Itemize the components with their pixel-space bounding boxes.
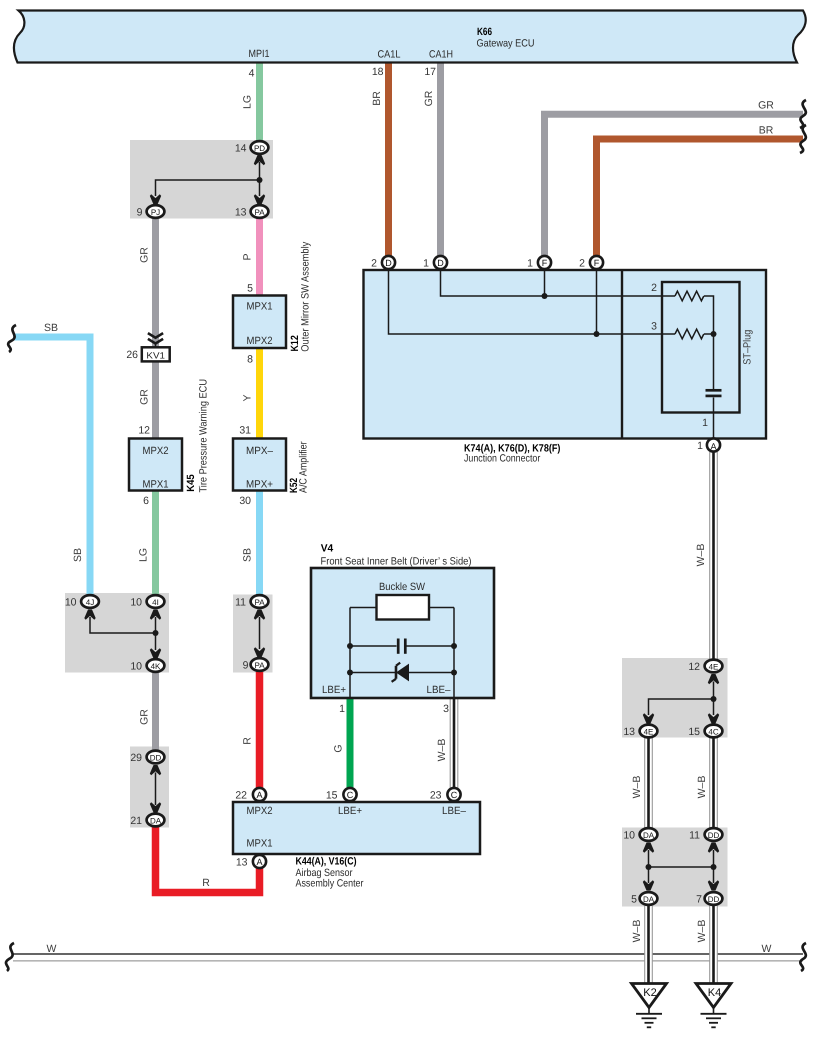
svg-text:23: 23 [430, 790, 442, 802]
svg-text:LBE+: LBE+ [322, 684, 346, 696]
svg-text:10: 10 [65, 597, 77, 609]
arrow into 4K [150, 648, 161, 658]
svg-text:GR: GR [758, 100, 774, 112]
junction dot 4I [153, 630, 159, 636]
torn end GR right [800, 100, 806, 128]
wire LG from K66 MPI1 to PD [256, 62, 263, 141]
svg-text:W–B: W–B [695, 544, 707, 567]
internal wire F1 drop [544, 270, 546, 296]
svg-text:13: 13 [623, 726, 635, 738]
wire P from PA to K12 [256, 219, 263, 296]
svg-text:PJ: PJ [151, 208, 160, 217]
wire W-B V4 LBE- to 23C [450, 698, 458, 788]
arrow into 4E13 [643, 713, 654, 723]
wire dot to PA [259, 180, 261, 196]
connector PD [251, 141, 269, 154]
ECU airbag box [233, 802, 480, 854]
connector C15 [343, 788, 356, 801]
connector 4J [81, 595, 99, 608]
chevrons above KV1 [148, 333, 163, 343]
internal wire D1 to resistor 2 [441, 270, 676, 296]
svg-text:DA: DA [643, 831, 655, 840]
wire 4J to junction [90, 617, 156, 633]
svg-text:1: 1 [423, 258, 429, 270]
junction dot DD [711, 864, 717, 870]
svg-text:4J: 4J [86, 598, 94, 607]
arrow into PA11 [254, 610, 265, 620]
capacitor V4 [398, 639, 405, 654]
svg-text:A: A [710, 441, 716, 451]
svg-text:GR: GR [139, 389, 151, 405]
svg-text:W–B: W–B [631, 776, 643, 799]
svg-text:11: 11 [235, 597, 246, 609]
svg-text:1: 1 [697, 440, 703, 452]
svg-text:V4: V4 [321, 543, 334, 555]
wire W-B A to 4E12 [710, 452, 718, 659]
connector C23 [447, 788, 460, 801]
ECU K66 bar [14, 11, 806, 63]
svg-text:22: 22 [235, 790, 247, 802]
svg-text:Y: Y [242, 394, 254, 401]
svg-text:W–B: W–B [436, 739, 448, 762]
svg-text:GR: GR [139, 247, 151, 263]
junction dot ST [711, 331, 717, 337]
svg-text:MPX–: MPX– [246, 445, 273, 457]
svg-text:CA1H: CA1H [429, 49, 453, 61]
svg-text:11: 11 [689, 830, 700, 842]
svg-text:BR: BR [759, 125, 774, 137]
wire PA11-PA9 [259, 617, 261, 649]
svg-text:W: W [762, 943, 772, 955]
svg-text:Outer Mirror SW Assembly: Outer Mirror SW Assembly [299, 241, 311, 352]
svg-text:W–B: W–B [696, 920, 708, 943]
svg-text:4E: 4E [709, 662, 719, 671]
connector PA13 [251, 205, 269, 218]
wire dot to PJ [156, 180, 260, 196]
junction connector box K74/K76/K78 [364, 270, 767, 439]
svg-text:GR: GR [423, 90, 435, 106]
svg-text:BR: BR [371, 91, 383, 106]
wire SB from left to 4J [13, 337, 90, 595]
connector D2 [382, 256, 395, 269]
svg-text:13: 13 [235, 207, 247, 219]
svg-text:8: 8 [247, 354, 253, 366]
svg-text:PA: PA [254, 661, 265, 670]
junction dot diode left [347, 670, 353, 676]
svg-text:D: D [385, 258, 392, 268]
junction dot cap right [451, 643, 457, 649]
svg-text:9: 9 [137, 207, 143, 219]
svg-text:LBE+: LBE+ [338, 805, 362, 817]
svg-text:W–B: W–B [631, 920, 643, 943]
svg-text:W: W [47, 943, 57, 955]
svg-text:MPX2: MPX2 [247, 805, 273, 817]
svg-text:K44(A), V16(C): K44(A), V16(C) [296, 856, 357, 868]
svg-text:MPX2: MPX2 [247, 335, 273, 347]
wire GR from right to F [545, 114, 804, 256]
wire 4I to 4K [155, 617, 157, 650]
wire DD11-DD7 [713, 850, 715, 883]
svg-text:F: F [542, 258, 548, 268]
svg-text:SB: SB [72, 548, 84, 562]
svg-text:14: 14 [235, 143, 247, 155]
connector 4E12 [705, 660, 723, 673]
wire down to capacitor [713, 334, 715, 389]
wire DA10-DA5 [648, 850, 650, 883]
arrow into PJ [150, 194, 161, 204]
connector PJ [147, 205, 165, 218]
junction dot F2 [594, 331, 600, 337]
arrow into DA10 [643, 843, 654, 853]
arrow into 4E12 [708, 674, 719, 684]
arrow into 4J [84, 610, 95, 620]
svg-text:Gateway ECU: Gateway ECU [477, 38, 535, 50]
svg-text:30: 30 [239, 495, 251, 507]
zener diode V4 [392, 663, 409, 682]
wire W-B DA5 to K2 ground [645, 906, 653, 984]
wire SB from K52 to PA11 [256, 489, 263, 595]
arrow into PA9 [254, 647, 265, 657]
svg-text:LBE–: LBE– [427, 684, 451, 696]
wire GR from 4K to DD [152, 673, 159, 750]
svg-text:A/C Amplifier: A/C Amplifier [298, 441, 310, 493]
svg-text:MPX+: MPX+ [246, 479, 273, 491]
wire DD29-DA21 [155, 773, 157, 806]
shade group 4J/4I/4K [65, 593, 169, 673]
svg-text:15: 15 [326, 790, 338, 802]
svg-text:Front Seat Inner Belt (Driver’: Front Seat Inner Belt (Driver’ s Side) [321, 555, 472, 567]
shade group PD/PJ/PA [130, 140, 273, 219]
svg-text:KV1: KV1 [146, 351, 165, 361]
shade group DD/DA left [130, 747, 169, 828]
svg-text:Junction Connector: Junction Connector [464, 452, 541, 464]
svg-text:10: 10 [130, 661, 142, 673]
svg-text:10: 10 [130, 597, 142, 609]
buckle switch rect [377, 595, 430, 620]
connector F1 [538, 256, 551, 269]
svg-text:1: 1 [339, 703, 345, 715]
svg-text:31: 31 [239, 425, 251, 437]
connector 4C15 [705, 725, 723, 738]
ground K2 [632, 984, 667, 1028]
connector F2 [590, 256, 603, 269]
svg-text:F: F [594, 258, 600, 268]
wire capacitor row [350, 645, 397, 647]
sensor V4 box [311, 568, 494, 698]
svg-text:10: 10 [623, 830, 635, 842]
svg-text:4K: 4K [151, 662, 161, 671]
arrow into DA5 [643, 880, 654, 890]
svg-text:ST–Plug: ST–Plug [741, 330, 753, 365]
svg-text:R: R [242, 737, 254, 745]
svg-text:LG: LG [138, 548, 150, 562]
wire buckle row [350, 607, 377, 609]
junction dot DA [646, 864, 652, 870]
svg-text:D: D [437, 258, 444, 268]
svg-text:PD: PD [254, 144, 265, 153]
wire 4E12 down [713, 682, 715, 716]
svg-text:29: 29 [130, 752, 142, 764]
svg-text:GR: GR [139, 709, 151, 725]
svg-text:5: 5 [631, 894, 637, 906]
internal wire D2 to resistor 3 [389, 270, 676, 334]
arrow into PA [254, 194, 265, 204]
svg-text:Assembly Center: Assembly Center [296, 877, 364, 889]
wire R from PA9 to 22A [256, 672, 264, 788]
arrow into DA21 [150, 802, 161, 812]
svg-text:1: 1 [702, 417, 708, 429]
svg-text:A: A [256, 790, 262, 800]
arrow into DD11 [708, 843, 719, 853]
svg-text:K4: K4 [708, 987, 721, 999]
wire PD to junction dot [259, 162, 261, 180]
svg-text:4C: 4C [708, 727, 718, 736]
connector PA11 [251, 595, 269, 608]
connector 4K [147, 659, 165, 672]
connector A (ST pin1) [707, 438, 720, 451]
wire R from DA to airbag 13A [156, 827, 260, 893]
shade group PA11/PA9 [233, 595, 273, 673]
wire resistor2 right to vertical [704, 296, 714, 334]
ECU K12 box [233, 296, 286, 349]
svg-text:DD: DD [708, 831, 720, 840]
svg-text:K45: K45 [185, 474, 197, 492]
svg-text:4: 4 [249, 68, 255, 80]
svg-text:2: 2 [651, 282, 657, 294]
svg-text:LBE–: LBE– [442, 805, 466, 817]
svg-text:13: 13 [236, 857, 248, 869]
svg-text:4I: 4I [152, 598, 159, 607]
svg-text:C: C [347, 790, 354, 800]
svg-text:MPX1: MPX1 [247, 301, 273, 313]
svg-text:Buckle SW: Buckle SW [379, 581, 425, 593]
junction dot cap left [347, 643, 353, 649]
svg-text:Tire Pressure Warning ECU: Tire Pressure Warning ECU [198, 379, 210, 493]
svg-text:SB: SB [44, 322, 58, 334]
wire LG from K45 to 4I [152, 489, 159, 595]
svg-text:MPI1: MPI1 [249, 48, 270, 60]
resistor pin3 [675, 329, 704, 339]
connector D1 [434, 256, 447, 269]
ECU K52 box [233, 439, 286, 491]
ground K4 [696, 984, 731, 1028]
capacitor ST [706, 390, 722, 396]
connector DA10 [640, 828, 658, 841]
internal wire F2 drop [596, 270, 598, 334]
svg-text:PA: PA [254, 598, 265, 607]
resistor pin2 [675, 291, 704, 301]
svg-text:CA1L: CA1L [378, 49, 401, 61]
connector DD29 [147, 751, 165, 764]
svg-text:P: P [242, 253, 254, 260]
svg-text:A: A [256, 857, 262, 867]
connector 4I [147, 595, 165, 608]
wire V4 right vertical [453, 608, 455, 699]
svg-text:1: 1 [527, 258, 533, 270]
torn end W right [800, 943, 806, 971]
shade group 4E/4C [622, 658, 728, 738]
svg-text:2: 2 [371, 258, 377, 270]
svg-text:G: G [333, 744, 345, 752]
wire GR from K66 CA1H to D [437, 62, 444, 256]
wire GR from PJ to K45 [152, 219, 159, 439]
svg-text:4E: 4E [644, 727, 654, 736]
connector DA5 [640, 892, 658, 905]
svg-text:3: 3 [443, 703, 449, 715]
wire BR from right to F [597, 139, 804, 256]
connector DD11 [705, 828, 723, 841]
wire diode row [350, 672, 396, 674]
ECU K45 box [129, 439, 182, 491]
svg-text:SB: SB [242, 548, 254, 562]
svg-text:C: C [451, 790, 458, 800]
svg-text:MPX1: MPX1 [247, 837, 273, 849]
arrow into DD7 [708, 880, 719, 890]
svg-text:PA: PA [254, 208, 265, 217]
svg-text:DA: DA [643, 895, 655, 904]
svg-text:18: 18 [372, 66, 384, 78]
arrow into DD29 [150, 765, 161, 775]
svg-text:2: 2 [579, 258, 585, 270]
wire W-B 4C15 to DD11 [710, 738, 718, 828]
svg-text:7: 7 [696, 894, 702, 906]
svg-text:DA: DA [150, 816, 162, 825]
wire BR from K66 CA1L to D [385, 62, 392, 256]
svg-text:DD: DD [150, 753, 162, 762]
relay block KV1 [142, 347, 170, 361]
svg-text:9: 9 [243, 660, 249, 672]
svg-text:W–B: W–B [696, 776, 708, 799]
junction dot 4E [711, 696, 717, 702]
wire W-B DD7 to K4 ground [710, 906, 718, 984]
svg-text:MPX1: MPX1 [143, 479, 169, 491]
torn end BR right [800, 125, 806, 153]
svg-text:K66: K66 [477, 26, 492, 38]
svg-text:6: 6 [143, 495, 149, 507]
svg-text:26: 26 [126, 349, 138, 361]
connector 4E13 [640, 725, 658, 738]
torn end SB left [8, 325, 16, 352]
arrow into 4I [150, 610, 161, 620]
wire Y from K12 to K52 [256, 347, 263, 439]
wire resistor3 right [704, 333, 714, 335]
connector PA9 [251, 658, 269, 671]
W rail [13, 953, 803, 955]
svg-text:5: 5 [247, 283, 253, 295]
svg-text:17: 17 [424, 66, 436, 78]
svg-text:12: 12 [688, 661, 700, 673]
arrow into PD [254, 155, 265, 165]
wire V4 left vertical [349, 608, 351, 699]
svg-text:3: 3 [651, 321, 657, 333]
wire capacitor to pin1 [713, 398, 715, 439]
svg-text:DD: DD [708, 895, 720, 904]
shade group DA/DD right [622, 828, 728, 907]
junction dot PD [257, 177, 263, 183]
svg-text:R: R [202, 877, 210, 889]
connector DA21 [147, 814, 165, 827]
svg-text:MPX2: MPX2 [143, 445, 169, 457]
svg-text:12: 12 [138, 425, 150, 437]
connector A22 [253, 788, 266, 801]
junction dot F1 [542, 293, 548, 299]
wire junction to 4E13 [649, 699, 714, 715]
junction dot diode right [451, 670, 457, 676]
torn end W left [6, 943, 14, 971]
wire G from V4 LBE+ to 15C [347, 698, 354, 788]
divider line [621, 270, 623, 439]
arrow into 4C15 [708, 713, 719, 723]
svg-text:K2: K2 [643, 987, 656, 999]
svg-text:21: 21 [130, 815, 142, 827]
connector A13 [253, 855, 266, 868]
wire cross DA-DD [649, 866, 714, 868]
connector DD7 [705, 892, 723, 905]
svg-text:15: 15 [688, 726, 700, 738]
wire W-B 4E13 to DA10 [645, 738, 653, 828]
svg-text:LG: LG [242, 95, 254, 109]
ST-Plug box [662, 282, 740, 413]
